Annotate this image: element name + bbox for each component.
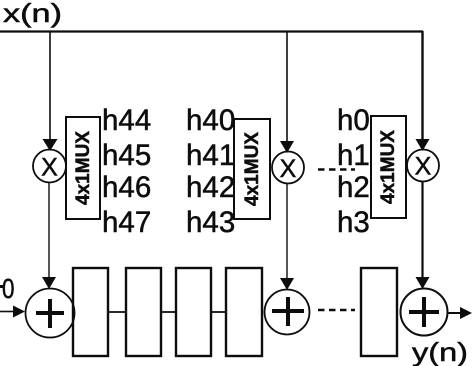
delay register D1 [73,268,108,356]
svg-text:h40: h40 [186,104,235,137]
svg-text:h1: h1 [337,139,370,172]
wire: drop to multiplier M1 [49,31,51,141]
svg-text:X: X [41,154,58,182]
arrowhead into adder A3 [416,277,430,289]
svg-text:h0: h0 [337,104,370,137]
adder A3 [401,289,448,336]
wire: top input bus [0,30,423,32]
wire: output of adder A3 [449,312,463,314]
multiplier M1 [33,150,66,183]
svg-text:h42: h42 [186,171,235,204]
svg-text:X: X [280,155,297,183]
adder A2 [265,290,310,335]
svg-text:4x1MUX: 4x1MUX [242,132,263,206]
delay register D3 [176,268,211,356]
ellipsis dashes between coefficient banks [318,168,355,171]
svg-text:y(n): y(n) [412,337,468,366]
svg-text:h46: h46 [102,171,151,204]
arrowhead into adder A2 [280,278,294,290]
svg-text:x(n): x(n) [3,0,62,28]
wire: constant input into adder A1 [0,311,15,313]
delay register D2 [126,268,161,356]
svg-text:4x1MUX: 4x1MUX [73,131,94,205]
wire: multiplier M2 to adder A2 [286,184,288,281]
dashed wire: adder A2 toward delay D5 (omitted stages) [318,309,355,312]
svg-text:h47: h47 [102,206,151,239]
wire: multiplier M1 to adder A1 [48,183,50,281]
wire: bus corner drop to multiplier M3 [421,31,423,141]
svg-text:h45: h45 [102,139,151,172]
arrowhead into multiplier M2 [280,141,294,153]
wire D2 to D3 [161,311,176,313]
mux U1 (4x1MUX) [66,117,100,219]
arrowhead into multiplier M3 [416,139,430,151]
multiplier M2 [272,152,304,184]
delay register D4 [226,268,262,356]
svg-text:h43: h43 [186,206,235,239]
svg-text:X: X [415,153,432,181]
adder A1 [26,289,75,338]
arrowhead into adder A1 left [13,306,25,318]
wire D1 to D2 [108,311,126,313]
wire: multiplier M3 to adder A3 [421,182,423,280]
multiplier M3 [407,150,439,182]
svg-text:0: 0 [2,273,15,304]
arrowhead output [460,307,472,319]
svg-text:h41: h41 [186,139,235,172]
tick at left edge of 0 label [0,285,3,288]
svg-text:4x1MUX: 4x1MUX [378,130,399,204]
mux U3 (4x1MUX) [371,116,406,218]
delay register D5 [361,268,397,356]
arrowhead into multiplier M1 [43,139,58,151]
svg-text:h2: h2 [337,171,370,204]
wire: drop to multiplier M2 [286,31,288,143]
mux U2 (4x1MUX) [234,119,270,219]
arrowhead into adder A1 [42,277,56,289]
svg-text:h44: h44 [102,104,151,137]
svg-text:h3: h3 [337,206,370,239]
wire D3 to D4 [211,311,226,313]
